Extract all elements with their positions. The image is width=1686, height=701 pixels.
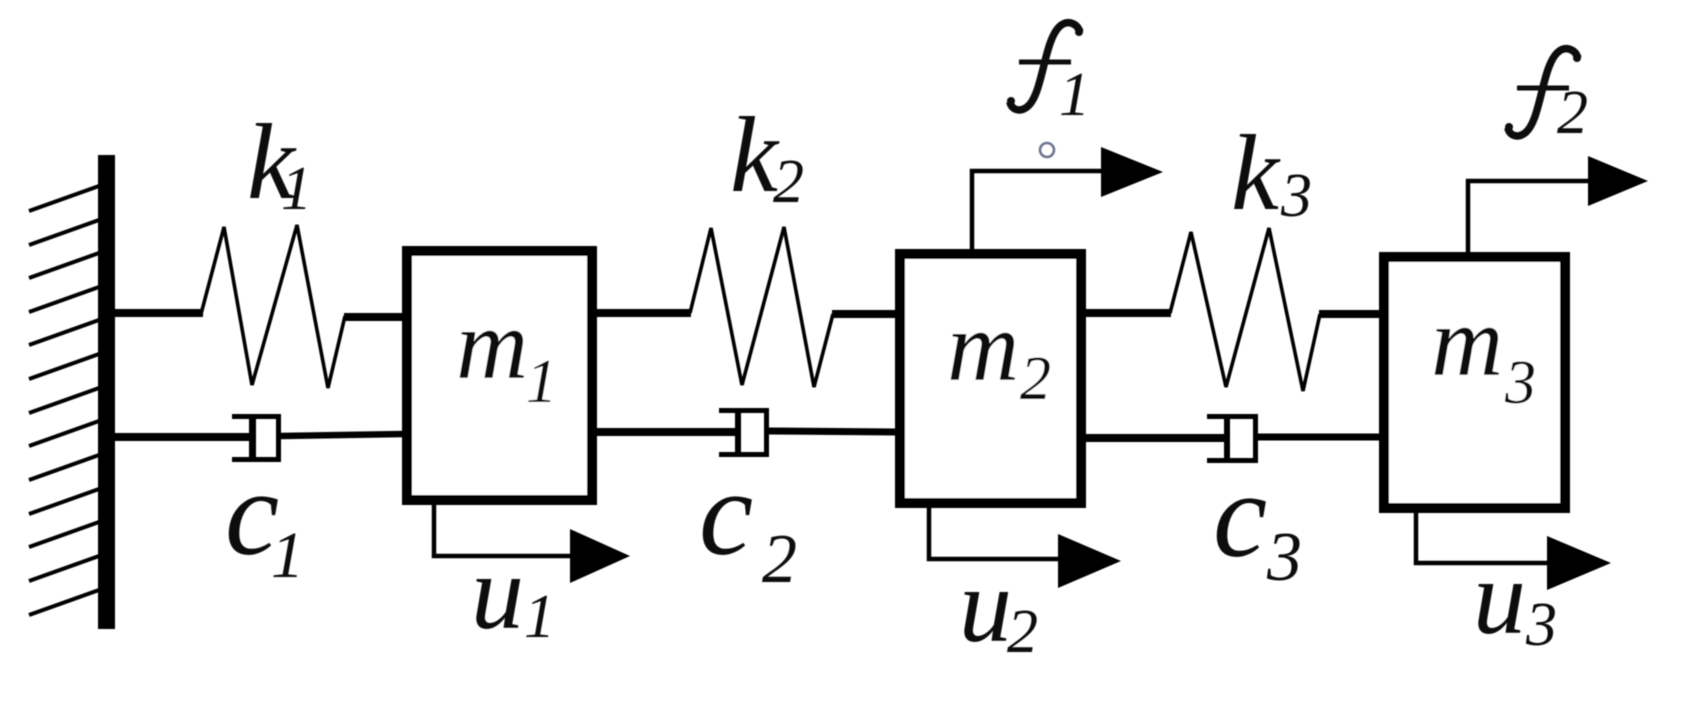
mass M2	[900, 254, 1081, 503]
wall hatching	[29, 186, 99, 615]
displacement arrow u2	[929, 506, 1121, 588]
label f2	[1505, 49, 1588, 147]
svg-text:3: 3	[1280, 162, 1312, 230]
label m2	[947, 291, 1051, 413]
label f1	[1007, 23, 1090, 129]
svg-text:u: u	[471, 534, 524, 651]
svg-text:c: c	[1213, 448, 1267, 583]
svg-text:2: 2	[773, 148, 804, 216]
wire: spring k1 left lead	[110, 309, 203, 317]
damper C1 left rod	[110, 433, 252, 441]
svg-text:3: 3	[1525, 591, 1557, 659]
svg-text:3: 3	[1504, 349, 1536, 417]
damper C1 body	[232, 414, 281, 462]
wire: spring k3 left lead	[1084, 309, 1171, 317]
svg-text:u: u	[1473, 539, 1526, 656]
svg-text:c: c	[699, 446, 753, 581]
damper C3 body	[1207, 414, 1258, 463]
damper C2 left rod	[595, 428, 738, 436]
svg-text:1: 1	[524, 583, 555, 651]
spring K3 zigzag	[1170, 228, 1320, 391]
label m3	[1431, 286, 1536, 417]
wire: spring k3 right lead	[1319, 310, 1381, 318]
spring K1 zigzag	[201, 225, 345, 388]
wire: damper c2 right rod	[769, 431, 897, 432]
svg-text:1: 1	[1059, 61, 1090, 129]
damper C3 left rod	[1084, 434, 1227, 442]
mass M1	[407, 251, 592, 500]
label c3	[1213, 448, 1302, 596]
svg-text:1: 1	[526, 348, 557, 416]
label k2	[730, 96, 804, 216]
svg-text:k: k	[1231, 114, 1281, 233]
svg-text:m: m	[1431, 286, 1503, 397]
svg-text:1: 1	[281, 155, 312, 223]
displacement arrow u3	[1416, 510, 1611, 590]
svg-text:u: u	[959, 547, 1012, 664]
spring K2 zigzag	[690, 227, 833, 387]
svg-text:2: 2	[1007, 598, 1038, 666]
displacement arrow u1	[434, 503, 630, 583]
wire: damper c3 right rod	[1258, 434, 1381, 441]
mass M3	[1384, 257, 1565, 508]
svg-text:2: 2	[762, 521, 797, 598]
label k1	[247, 103, 312, 223]
force arrow f1	[972, 147, 1163, 250]
svg-text:3: 3	[1266, 519, 1302, 596]
damper C2 body	[719, 408, 769, 457]
svg-text:m: m	[947, 291, 1019, 402]
wall (fixed support) bar	[98, 155, 115, 629]
wire: spring k2 left lead	[595, 309, 691, 317]
node marker (small circle) above f1 line	[1040, 143, 1054, 157]
svg-text:m: m	[456, 289, 528, 400]
force arrow f2	[1468, 156, 1648, 254]
svg-text:1: 1	[271, 519, 304, 592]
label u1	[471, 534, 555, 651]
label u3	[1473, 539, 1557, 659]
label m1	[456, 289, 557, 416]
svg-text:2: 2	[1020, 345, 1051, 413]
wire: damper c1 right rod	[281, 434, 404, 436]
label c1	[225, 446, 304, 592]
wire: spring k2 right lead	[832, 310, 897, 318]
label k3	[1231, 114, 1312, 233]
label c2	[699, 446, 797, 598]
svg-text:2: 2	[1557, 79, 1588, 147]
wire: spring k1 right lead	[344, 313, 404, 321]
label u2	[959, 547, 1038, 666]
